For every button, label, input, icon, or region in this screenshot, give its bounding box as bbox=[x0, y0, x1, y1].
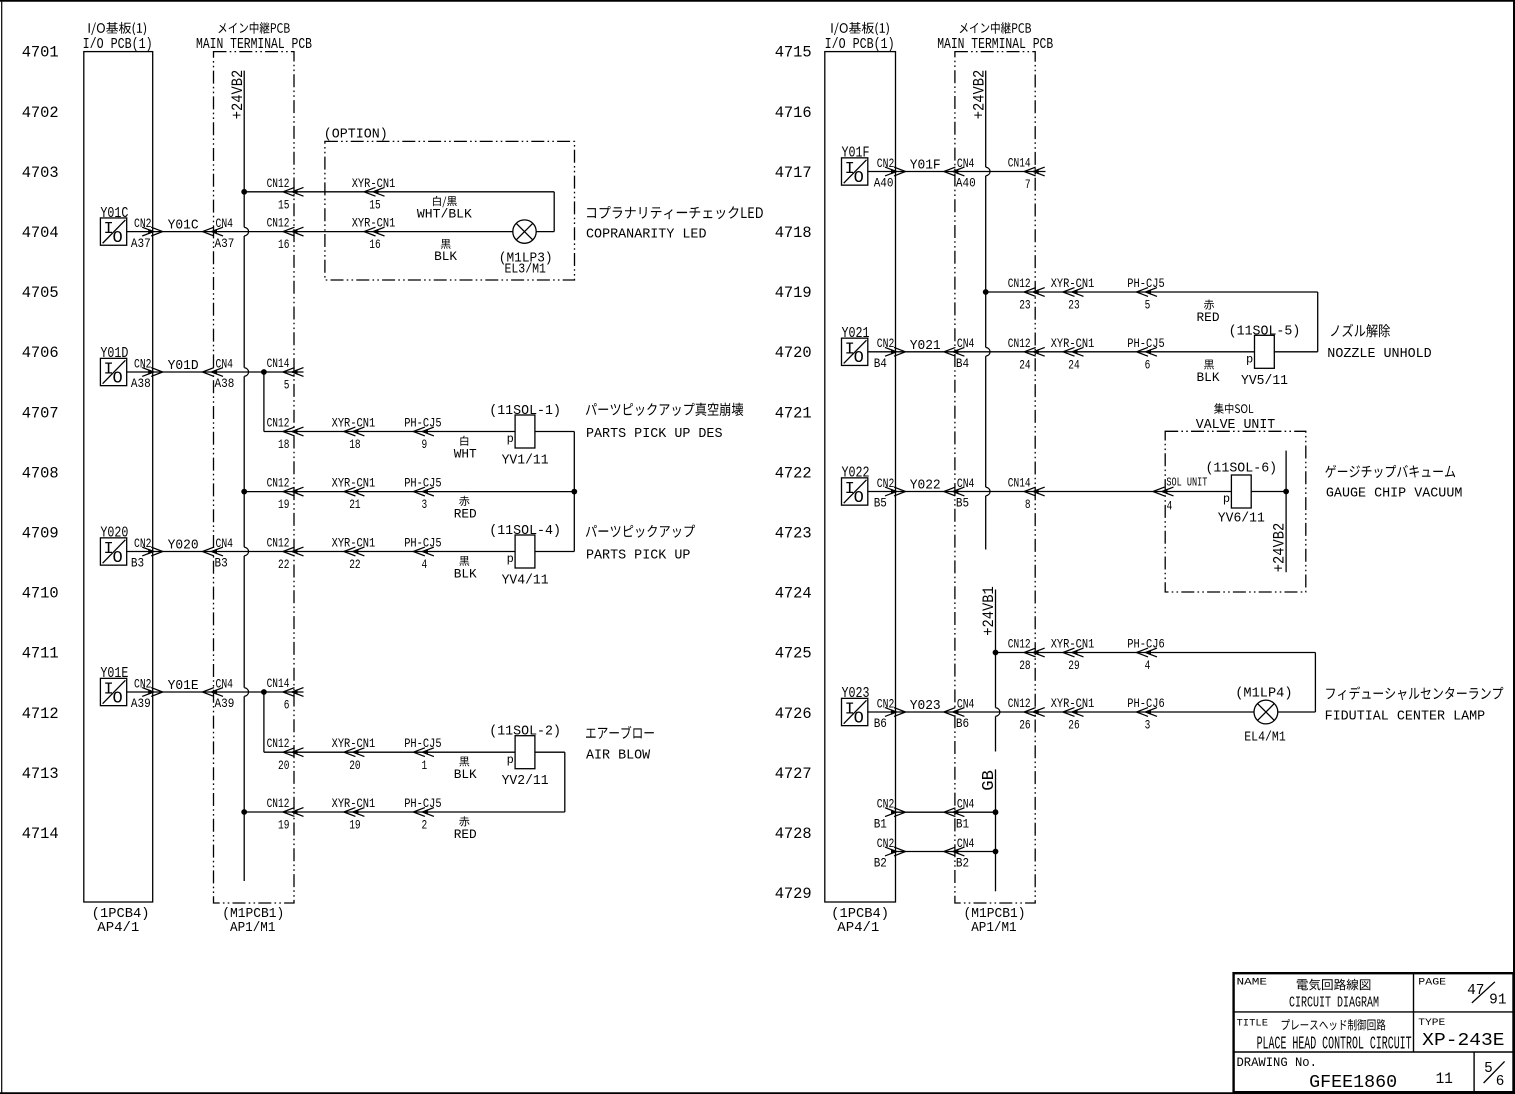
svg-text:PLACE HEAD CONTROL CIRCUIT: PLACE HEAD CONTROL CIRCUIT bbox=[1257, 1035, 1412, 1055]
connector CN2 pin A39 bbox=[142, 688, 163, 697]
svg-text:4726: 4726 bbox=[775, 705, 812, 723]
svg-text:6: 6 bbox=[1496, 1074, 1505, 1090]
svg-text:Y01E: Y01E bbox=[168, 679, 199, 694]
svg-text:AP4/1: AP4/1 bbox=[837, 921, 879, 936]
svg-text:(11SOL-2): (11SOL-2) bbox=[489, 724, 561, 740]
connector CN12 pin 15 bbox=[283, 187, 304, 196]
svg-text:4718: 4718 bbox=[775, 224, 812, 242]
svg-text:4722: 4722 bbox=[775, 464, 812, 482]
svg-text:GB: GB bbox=[979, 770, 998, 791]
node GB/B1 bbox=[993, 809, 999, 815]
node +24VB2/CN12-19b bbox=[241, 809, 247, 815]
svg-text:p: p bbox=[1223, 492, 1230, 506]
wire label BLK bbox=[459, 757, 469, 767]
svg-text:6: 6 bbox=[1145, 357, 1151, 372]
+24VB1 power line bbox=[995, 590, 997, 708]
connector XYR-CN1 pin 23 bbox=[1063, 288, 1084, 297]
connector CN12 pin 22 bbox=[283, 547, 304, 556]
svg-text:4: 4 bbox=[1145, 658, 1151, 673]
svg-text:XYR-CN1: XYR-CN1 bbox=[332, 476, 376, 491]
wire YV4 to loop right bbox=[535, 551, 574, 553]
side label coplanarity LED bbox=[587, 206, 763, 219]
svg-text:PH-CJ6: PH-CJ6 bbox=[1127, 696, 1164, 711]
connector CN4 pin B4 bbox=[944, 347, 965, 356]
svg-text:(11SOL-6): (11SOL-6) bbox=[1205, 461, 1277, 477]
svg-text:Y021: Y021 bbox=[910, 339, 941, 354]
wire Y01E output bbox=[127, 691, 304, 693]
svg-text:CN2: CN2 bbox=[134, 536, 152, 551]
svg-text:21: 21 bbox=[349, 497, 361, 512]
wire hop at +24VB2 bbox=[244, 688, 248, 697]
side label fidutial center lamp bbox=[1326, 686, 1503, 700]
svg-text:B2: B2 bbox=[956, 856, 969, 871]
svg-text:CN14: CN14 bbox=[267, 676, 290, 691]
connector CN4 pin B1 bbox=[944, 808, 965, 817]
svg-text:CN4: CN4 bbox=[957, 696, 975, 711]
svg-text:PARTS PICK UP DES: PARTS PICK UP DES bbox=[586, 426, 723, 442]
wire CN12-28 fidutial lamp feed bbox=[996, 652, 1316, 654]
wire CN12-19 air blow return bbox=[244, 811, 565, 813]
svg-text:CN4: CN4 bbox=[216, 536, 234, 551]
border frame bbox=[0, 0, 1515, 2]
svg-text:(11SOL-5): (11SOL-5) bbox=[1229, 323, 1301, 339]
svg-text:CN2: CN2 bbox=[877, 696, 895, 711]
svg-text:20: 20 bbox=[278, 758, 289, 773]
svg-text:28: 28 bbox=[1019, 658, 1030, 673]
svg-text:4701: 4701 bbox=[22, 44, 59, 62]
svg-text:TYPE: TYPE bbox=[1418, 1017, 1445, 1029]
svg-text:p: p bbox=[507, 552, 514, 566]
wire hop at +24VB2 bbox=[244, 547, 248, 556]
svg-text:CN4: CN4 bbox=[957, 836, 975, 851]
svg-text:26: 26 bbox=[1068, 718, 1079, 733]
svg-text:BLK: BLK bbox=[454, 767, 477, 782]
title block frame bbox=[1234, 973, 1514, 1092]
OPTION enclosure bbox=[325, 141, 575, 280]
wire YV1 to loop right bbox=[535, 431, 574, 433]
svg-text:B3: B3 bbox=[215, 556, 228, 571]
svg-text:(1PCB4): (1PCB4) bbox=[831, 907, 889, 922]
wire label RED bbox=[459, 816, 469, 826]
svg-text:4721: 4721 bbox=[775, 404, 812, 422]
svg-text:BLK: BLK bbox=[434, 249, 457, 264]
svg-text:4729: 4729 bbox=[775, 885, 812, 903]
svg-text:DRAWING No.: DRAWING No. bbox=[1237, 1055, 1317, 1070]
svg-text:18: 18 bbox=[349, 437, 360, 452]
svg-text:(M1PCB1): (M1PCB1) bbox=[222, 907, 284, 922]
connector CN14 pin 7 bbox=[1024, 167, 1045, 176]
svg-text:4725: 4725 bbox=[775, 645, 812, 663]
connector XYR-CN1 pin 20 bbox=[344, 748, 365, 757]
connector CN12 pin 19 bbox=[283, 808, 304, 817]
wire Y01D output bbox=[127, 371, 304, 373]
wire B1 return bbox=[896, 811, 996, 813]
svg-text:CN2: CN2 bbox=[877, 836, 895, 851]
connector CN14 pin 5 bbox=[283, 368, 304, 377]
svg-text:B4: B4 bbox=[956, 356, 969, 371]
svg-text:TITLE: TITLE bbox=[1237, 1018, 1269, 1030]
side label gauge chip vacuum bbox=[1325, 465, 1455, 478]
wire CN12-15 to lamp loop (top) bbox=[244, 191, 554, 193]
connector PH-CJ5 pin 9 bbox=[413, 427, 434, 436]
svg-text:4: 4 bbox=[1167, 499, 1173, 514]
svg-text:19: 19 bbox=[278, 818, 289, 833]
svg-text:BLK: BLK bbox=[454, 567, 477, 582]
connector CN2 pin B5 bbox=[885, 487, 906, 496]
svg-text:YV4/11: YV4/11 bbox=[502, 574, 549, 589]
node YV6 +24VB2 bbox=[1283, 489, 1289, 495]
svg-text:5: 5 bbox=[1145, 298, 1151, 313]
svg-text:Y01F: Y01F bbox=[910, 159, 941, 174]
svg-text:4707: 4707 bbox=[22, 404, 59, 422]
valve unit enclosure bbox=[1165, 431, 1306, 592]
svg-text:YV2/11: YV2/11 bbox=[502, 774, 549, 789]
svg-text:3: 3 bbox=[422, 497, 428, 512]
svg-text:B2: B2 bbox=[874, 856, 887, 871]
svg-text:15: 15 bbox=[369, 197, 380, 212]
+24VB2 power line (right) bbox=[985, 71, 987, 168]
wire Y01D branch down bbox=[263, 372, 265, 432]
lamp M1LP3 coplanarity LED bbox=[513, 220, 536, 243]
svg-text:CN12: CN12 bbox=[267, 476, 290, 491]
svg-text:B1: B1 bbox=[874, 816, 887, 831]
svg-text:16: 16 bbox=[278, 237, 289, 252]
connector SOL UNIT pin 4 bbox=[1153, 487, 1174, 496]
svg-text:16: 16 bbox=[369, 237, 380, 252]
svg-text:BLK: BLK bbox=[1197, 370, 1220, 385]
svg-text:I/O PCB(1): I/O PCB(1) bbox=[83, 36, 153, 53]
svg-text:Y01C: Y01C bbox=[168, 219, 199, 234]
svg-text:23: 23 bbox=[1068, 298, 1079, 313]
svg-text:23: 23 bbox=[1019, 298, 1030, 313]
svg-text:5: 5 bbox=[284, 378, 290, 393]
node +24VB1/CN12-28 bbox=[993, 650, 999, 656]
svg-text:SOL UNIT: SOL UNIT bbox=[1166, 476, 1207, 490]
svg-text:RED: RED bbox=[454, 827, 477, 842]
wire label WHT/BLK bbox=[433, 196, 457, 207]
svg-text:O: O bbox=[112, 369, 122, 388]
wire YV5 to loop bbox=[1274, 351, 1317, 353]
wire YV2 to loop right bbox=[535, 751, 565, 753]
svg-text:3: 3 bbox=[1145, 718, 1151, 733]
svg-text:A39: A39 bbox=[131, 696, 151, 711]
wire label BLK bbox=[441, 239, 451, 249]
svg-text:CN14: CN14 bbox=[1008, 156, 1031, 171]
svg-text:24: 24 bbox=[1019, 357, 1031, 372]
svg-text:CN12: CN12 bbox=[267, 796, 290, 811]
svg-text:CN12: CN12 bbox=[267, 176, 290, 191]
connector PH-CJ5 pin 6 bbox=[1137, 347, 1158, 356]
svg-text:4705: 4705 bbox=[22, 284, 59, 302]
svg-text:22: 22 bbox=[349, 557, 360, 572]
connector PH-CJ5 pin 4 bbox=[413, 547, 434, 556]
svg-text:4727: 4727 bbox=[775, 765, 812, 783]
+24VB2 power line (left) bbox=[243, 71, 245, 228]
MAIN TERMINAL PCB header right bbox=[960, 22, 1031, 34]
side label nozzle unhold bbox=[1331, 324, 1390, 338]
svg-text:XYR-CN1: XYR-CN1 bbox=[352, 176, 396, 191]
wire lamp loop right bbox=[1314, 653, 1316, 713]
svg-text:XYR-CN1: XYR-CN1 bbox=[1051, 696, 1095, 711]
connector CN2 pin A40 bbox=[885, 167, 906, 176]
connector CN2 pin B3 bbox=[142, 547, 163, 556]
svg-text:O: O bbox=[854, 709, 864, 728]
svg-text:A40: A40 bbox=[956, 176, 976, 191]
solenoid YV6 11SOL-6 bbox=[1231, 475, 1251, 508]
svg-text:PH-CJ5: PH-CJ5 bbox=[404, 736, 441, 751]
svg-text:CN2: CN2 bbox=[134, 356, 152, 371]
svg-text:PH-CJ5: PH-CJ5 bbox=[404, 796, 441, 811]
+24VB2 feed in valve unit bbox=[1285, 451, 1287, 573]
connector PH-CJ5 pin 1 bbox=[413, 748, 434, 757]
svg-text:PAGE: PAGE bbox=[1418, 977, 1446, 989]
connector CN12 pin 23 bbox=[1024, 288, 1045, 297]
svg-text:A38: A38 bbox=[215, 376, 235, 391]
svg-text:CN4: CN4 bbox=[216, 676, 234, 691]
wire hop at +24VB2 right bbox=[986, 347, 990, 356]
svg-text:CN2: CN2 bbox=[877, 797, 895, 812]
svg-text:XYR-CN1: XYR-CN1 bbox=[1051, 276, 1095, 291]
wire Y022 output bbox=[868, 491, 1232, 493]
connector CN2 pin B2 bbox=[885, 847, 906, 856]
solenoid YV2 11SOL-2 bbox=[515, 736, 535, 769]
connector CN4 pin B2 bbox=[944, 847, 965, 856]
svg-text:CN12: CN12 bbox=[267, 416, 290, 431]
svg-text:YV6/11: YV6/11 bbox=[1218, 512, 1265, 527]
svg-text:Y022: Y022 bbox=[910, 479, 941, 494]
svg-text:XYR-CN1: XYR-CN1 bbox=[1051, 637, 1095, 652]
svg-text:20: 20 bbox=[349, 758, 360, 773]
wire lamp loop right side bbox=[553, 192, 555, 232]
svg-text:4702: 4702 bbox=[22, 104, 59, 122]
svg-text:CN2: CN2 bbox=[877, 156, 895, 171]
connector CN12 pin 26 bbox=[1024, 708, 1045, 717]
connector CN14 pin 6 bbox=[283, 688, 304, 697]
svg-text:CN12: CN12 bbox=[1008, 637, 1031, 652]
side label air blow bbox=[586, 726, 654, 739]
wire label RED bbox=[1204, 300, 1214, 310]
connector XYR-CN1 pin 16 bbox=[364, 227, 385, 236]
svg-text:+24VB2: +24VB2 bbox=[1271, 523, 1289, 573]
svg-text:47: 47 bbox=[1467, 983, 1484, 999]
svg-text:AP1/M1: AP1/M1 bbox=[971, 921, 1016, 936]
svg-text:MAIN TERMINAL PCB: MAIN TERMINAL PCB bbox=[196, 36, 312, 53]
connector XYR-CN1 pin 24 bbox=[1063, 347, 1084, 356]
wire label WHT bbox=[460, 436, 468, 446]
svg-text:PARTS PICK UP: PARTS PICK UP bbox=[586, 548, 690, 564]
svg-text:CN12: CN12 bbox=[267, 216, 290, 231]
svg-text:Y023: Y023 bbox=[910, 699, 941, 714]
svg-text:WHT: WHT bbox=[454, 447, 477, 462]
connector XYR-CN1 pin 21 bbox=[344, 487, 365, 496]
wire label RED bbox=[459, 496, 469, 506]
wire label BLK bbox=[459, 556, 469, 566]
svg-text:EL4/M1: EL4/M1 bbox=[1244, 731, 1286, 746]
svg-text:XYR-CN1: XYR-CN1 bbox=[1051, 336, 1095, 351]
svg-text:CN4: CN4 bbox=[957, 336, 975, 351]
svg-text:PH-CJ5: PH-CJ5 bbox=[1127, 336, 1164, 351]
svg-text:YV5/11: YV5/11 bbox=[1241, 374, 1288, 389]
node GB/B2 bbox=[993, 849, 999, 855]
svg-text:PH-CJ5: PH-CJ5 bbox=[404, 536, 441, 551]
wire CN12-23 nozzle unhold return bbox=[986, 291, 1318, 293]
side label parts pick up des bbox=[586, 403, 744, 416]
svg-text:11: 11 bbox=[1436, 1070, 1453, 1088]
svg-text:AIR BLOW: AIR BLOW bbox=[586, 748, 651, 764]
node YV1/YV4 return bbox=[571, 489, 577, 495]
svg-text:B5: B5 bbox=[874, 496, 887, 511]
svg-text:CN2: CN2 bbox=[134, 216, 152, 231]
wire lamp to loop bbox=[536, 231, 554, 233]
svg-text:XYR-CN1: XYR-CN1 bbox=[352, 216, 396, 231]
svg-text:15: 15 bbox=[278, 197, 289, 212]
svg-text:PH-CJ5: PH-CJ5 bbox=[404, 476, 441, 491]
svg-text:+24VB1: +24VB1 bbox=[980, 586, 998, 636]
svg-text:CN12: CN12 bbox=[1008, 276, 1031, 291]
svg-text:B6: B6 bbox=[956, 716, 969, 731]
svg-text:CIRCUIT DIAGRAM: CIRCUIT DIAGRAM bbox=[1289, 996, 1379, 1012]
svg-text:CN2: CN2 bbox=[134, 676, 152, 691]
svg-text:4708: 4708 bbox=[22, 464, 59, 482]
svg-text:CN4: CN4 bbox=[216, 356, 234, 371]
connector CN4 pin A37 bbox=[203, 227, 224, 236]
svg-text:O: O bbox=[854, 349, 864, 368]
svg-text:XP-243E: XP-243E bbox=[1422, 1031, 1504, 1051]
svg-text:p: p bbox=[1246, 352, 1253, 366]
svg-text:XYR-CN1: XYR-CN1 bbox=[332, 736, 376, 751]
connector XYR-CN1 pin 29 bbox=[1063, 648, 1084, 657]
svg-text:RED: RED bbox=[454, 507, 477, 522]
svg-text:+24VB2: +24VB2 bbox=[229, 70, 247, 119]
connector CN12 pin 19 bbox=[283, 487, 304, 496]
svg-text:O: O bbox=[854, 489, 864, 508]
svg-text:PH-CJ5: PH-CJ5 bbox=[404, 416, 441, 431]
wire Y020 output bbox=[127, 551, 515, 553]
svg-text:18: 18 bbox=[278, 437, 289, 452]
svg-text:4704: 4704 bbox=[22, 224, 59, 242]
connector XYR-CN1 pin 18 bbox=[344, 427, 365, 436]
svg-text:9: 9 bbox=[422, 437, 428, 452]
svg-text:A37: A37 bbox=[131, 236, 151, 251]
svg-text:4723: 4723 bbox=[775, 525, 812, 543]
svg-text:CN12: CN12 bbox=[1008, 696, 1031, 711]
svg-text:(M1LP4): (M1LP4) bbox=[1235, 687, 1292, 702]
svg-text:A38: A38 bbox=[131, 376, 151, 391]
svg-text:6: 6 bbox=[284, 698, 290, 713]
svg-text:4706: 4706 bbox=[22, 344, 59, 362]
node Y01E branch bbox=[261, 689, 267, 695]
connector XYR-CN1 pin 15 bbox=[364, 187, 385, 196]
svg-text:91: 91 bbox=[1489, 993, 1506, 1009]
wire lamp to loop bbox=[1278, 711, 1316, 713]
svg-text:4716: 4716 bbox=[775, 104, 812, 122]
svg-text:A37: A37 bbox=[215, 236, 235, 251]
I/O PCB(1) header bbox=[89, 22, 147, 35]
wire hop at +24VB2 right bbox=[986, 167, 990, 176]
svg-text:GAUGE CHIP VACUUM: GAUGE CHIP VACUUM bbox=[1326, 485, 1463, 501]
title block dividers bbox=[1234, 1011, 1514, 1013]
connector XYR-CN1 pin 19 bbox=[344, 808, 365, 817]
svg-text:19: 19 bbox=[278, 497, 289, 512]
connector CN4 pin B6 bbox=[944, 708, 965, 717]
wire CN12-18 to YV1 bbox=[264, 431, 515, 433]
wire YV6 to +24VB2 bbox=[1251, 491, 1286, 493]
svg-text:26: 26 bbox=[1019, 718, 1030, 733]
connector CN4 pin B3 bbox=[203, 547, 224, 556]
svg-text:4: 4 bbox=[422, 557, 428, 572]
svg-text:VALVE UNIT: VALVE UNIT bbox=[1196, 418, 1276, 433]
wire hop at +24VB2 right bbox=[986, 487, 990, 496]
svg-text:8: 8 bbox=[1025, 497, 1031, 512]
svg-text:NAME: NAME bbox=[1237, 977, 1268, 989]
svg-text:FIDUTIAL CENTER LAMP: FIDUTIAL CENTER LAMP bbox=[1325, 708, 1486, 724]
node +24VB2/CN12-19 bbox=[241, 489, 247, 495]
connector XYR-CN1 pin 26 bbox=[1063, 708, 1084, 717]
svg-text:WHT/BLK: WHT/BLK bbox=[417, 206, 472, 221]
connector CN2 pin B1 bbox=[885, 808, 906, 817]
connector PH-CJ5 pin 3 bbox=[413, 487, 434, 496]
connector CN4 pin A38 bbox=[203, 368, 224, 377]
svg-text:CN12: CN12 bbox=[1008, 336, 1031, 351]
svg-text:CN4: CN4 bbox=[957, 797, 975, 812]
wire Y023 output bbox=[868, 711, 1254, 713]
svg-text:B3: B3 bbox=[131, 556, 144, 571]
svg-text:YV1/11: YV1/11 bbox=[502, 454, 549, 469]
MAIN TERMINAL PCB header bbox=[218, 22, 289, 34]
svg-text:Y01D: Y01D bbox=[168, 359, 199, 374]
svg-text:(1PCB4): (1PCB4) bbox=[92, 907, 150, 922]
svg-text:MAIN TERMINAL PCB: MAIN TERMINAL PCB bbox=[937, 36, 1053, 53]
wire hop at +24VB2 bbox=[244, 368, 248, 377]
svg-text:7: 7 bbox=[1025, 177, 1031, 192]
I/O PCB(1) box right bbox=[825, 52, 896, 902]
svg-text:4714: 4714 bbox=[22, 825, 59, 843]
svg-text:CN14: CN14 bbox=[267, 356, 290, 371]
svg-text:(M1PCB1): (M1PCB1) bbox=[964, 907, 1026, 922]
wire hop at +24VB2 bbox=[244, 227, 248, 236]
svg-text:22: 22 bbox=[278, 557, 289, 572]
connector PH-CJ6 pin 4 bbox=[1137, 648, 1158, 657]
lamp M1LP4 fidutial center lamp bbox=[1254, 700, 1278, 724]
svg-text:I/O PCB(1): I/O PCB(1) bbox=[825, 36, 895, 53]
svg-text:B1: B1 bbox=[956, 816, 969, 831]
svg-text:+24VB2: +24VB2 bbox=[970, 70, 988, 120]
svg-text:CN12: CN12 bbox=[267, 736, 290, 751]
wire label BLK bbox=[1204, 360, 1214, 370]
svg-text:4715: 4715 bbox=[775, 44, 812, 62]
svg-text:4720: 4720 bbox=[775, 344, 812, 362]
svg-text:Y020: Y020 bbox=[168, 539, 199, 554]
svg-text:4712: 4712 bbox=[22, 705, 59, 723]
svg-text:GFEE1860: GFEE1860 bbox=[1309, 1073, 1397, 1093]
connector CN2 pin B4 bbox=[885, 347, 906, 356]
wire B2 return bbox=[896, 851, 996, 853]
svg-text:COPRANARITY LED: COPRANARITY LED bbox=[586, 227, 707, 243]
wire hop at +24VB1 bbox=[996, 708, 1000, 717]
svg-text:CN14: CN14 bbox=[1008, 476, 1031, 491]
wire Y01F output bbox=[868, 171, 1046, 173]
valve unit header bbox=[1214, 403, 1253, 414]
connector XYR-CN1 pin 22 bbox=[344, 547, 365, 556]
connector CN4 pin B5 bbox=[944, 487, 965, 496]
connector PH-CJ5 pin 2 bbox=[413, 808, 434, 817]
svg-text:(11SOL-1): (11SOL-1) bbox=[489, 403, 561, 419]
svg-text:RED: RED bbox=[1197, 310, 1220, 325]
svg-text:(OPTION): (OPTION) bbox=[324, 128, 388, 143]
svg-text:O: O bbox=[112, 549, 122, 568]
wire nozzle loop right bbox=[1317, 292, 1319, 352]
svg-text:CN4: CN4 bbox=[957, 476, 975, 491]
